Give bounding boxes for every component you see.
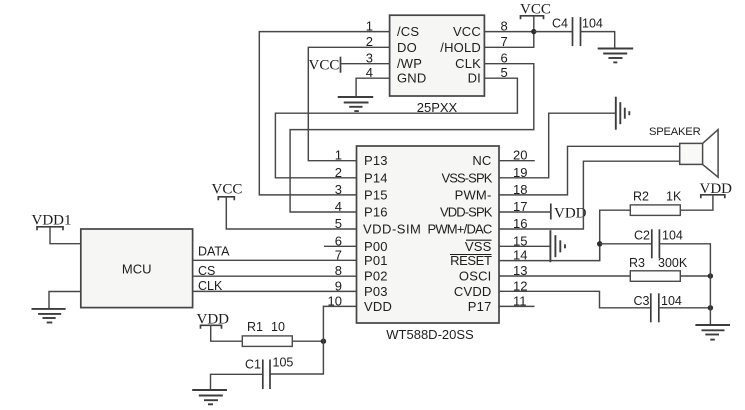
node R2-C2-RESET junction — [597, 241, 602, 246]
svg-text:RESET: RESET — [450, 253, 492, 268]
wire C2 node to C2 — [600, 243, 652, 245]
wire U1 GND pin to ground — [356, 78, 390, 96]
node C3-rail junction — [708, 305, 713, 310]
svg-text:C1: C1 — [245, 358, 261, 372]
wire R2 left down through C2 node to RESET wire — [600, 210, 631, 260]
wire U1 DI to U2 P14 — [275, 78, 517, 178]
wire U2 VDD-SPK pin 17 to VDD tick — [499, 211, 551, 213]
wire DATA MCU to U2 P01 — [193, 245, 357, 261]
speaker LS1 — [649, 126, 718, 177]
resistor R2 1K — [630, 190, 682, 216]
svg-text:P03: P03 — [364, 284, 388, 299]
svg-text:CVDD: CVDD — [454, 284, 492, 299]
wire junction up to U2 VDD pin 10 — [323, 306, 356, 341]
wire C4 to ground — [581, 32, 615, 49]
svg-text:VSS: VSS — [465, 239, 492, 254]
svg-text:/CS: /CS — [397, 24, 419, 39]
svg-text:P13: P13 — [364, 153, 388, 168]
svg-text:P02: P02 — [364, 269, 388, 284]
svg-text:NC: NC — [472, 153, 491, 168]
wire U1 CLK to U2 P16 — [290, 64, 534, 212]
MCU U3 body — [81, 229, 193, 308]
node R3-rail junction — [708, 273, 713, 278]
svg-text:C4: C4 — [552, 17, 568, 31]
svg-text:OSCI: OSCI — [459, 269, 492, 284]
capacitor C4 104 — [552, 17, 603, 47]
wire U1 VCC pin 8 to junction — [484, 31, 533, 33]
svg-text:WT588D-20SS: WT588D-20SS — [386, 327, 474, 342]
wire VDD down to R1 — [211, 325, 243, 341]
svg-text:GND: GND — [397, 71, 427, 86]
U2 pin 20 NC stub — [499, 160, 535, 162]
capacitor C3 104 — [634, 293, 682, 322]
ground at MCU — [32, 309, 66, 323]
svg-text:R1: R1 — [247, 320, 263, 334]
power VDD1 at MCU — [32, 213, 72, 231]
resistor R3 300K — [629, 256, 688, 281]
svg-text:P16: P16 — [364, 205, 388, 220]
svg-text:VCC: VCC — [453, 24, 481, 39]
svg-text:CLK: CLK — [455, 56, 481, 71]
wire VDD1 to MCU — [50, 227, 81, 244]
svg-text:SPEAKER: SPEAKER — [649, 126, 701, 138]
svg-text:DATA: DATA — [198, 245, 230, 259]
power VCC above C4 junction — [520, 2, 551, 32]
svg-text:104: 104 — [582, 17, 603, 31]
svg-text:/WP: /WP — [397, 56, 422, 71]
svg-text:VDD: VDD — [364, 299, 392, 314]
wire VCC tick to U1 /WP — [341, 63, 390, 65]
svg-text:R2: R2 — [633, 190, 649, 204]
svg-text:VCC: VCC — [212, 182, 243, 198]
svg-text:1K: 1K — [666, 190, 682, 204]
svg-text:DI: DI — [468, 71, 481, 86]
resistor R1 10 — [242, 320, 292, 346]
U2 pin 14 name RESET with overline — [450, 253, 492, 268]
wire junction to C4 — [534, 31, 573, 33]
wire C1 left to ground — [211, 374, 263, 390]
capacitor C2 104 — [634, 229, 683, 259]
U2 pin 6 stub — [324, 245, 357, 247]
wire U1 /CS to U2 P15 — [259, 32, 389, 195]
ground at U1 GND — [338, 97, 374, 111]
svg-text:P14: P14 — [364, 170, 388, 185]
node junction VCC-C4 — [531, 29, 536, 34]
svg-text:104: 104 — [661, 294, 682, 308]
svg-text:P00: P00 — [364, 239, 388, 254]
svg-text:VDD: VDD — [554, 206, 587, 222]
svg-text:/HOLD: /HOLD — [440, 40, 481, 55]
svg-text:VSS-SPK: VSS-SPK — [441, 170, 492, 185]
ground bottom right — [695, 325, 730, 340]
wire CS MCU to U2 P02 — [193, 264, 357, 278]
wire U1 DO to U2 P13 — [308, 47, 389, 160]
IC U1 25PXX body — [390, 15, 485, 115]
node R1-C1-VDD junction — [321, 339, 326, 344]
svg-text:105: 105 — [273, 356, 294, 370]
svg-text:C2: C2 — [634, 229, 650, 243]
svg-text:P01: P01 — [364, 253, 388, 268]
power VDD at R2 right — [700, 181, 733, 198]
wire U2 PWM- to speaker top — [499, 146, 680, 195]
wire U2 VSS pin 15 to sideways ground — [499, 245, 550, 247]
svg-text:VDD-SIM: VDD-SIM — [363, 222, 421, 237]
svg-text:VCC: VCC — [309, 58, 340, 74]
wire MCU to ground — [49, 292, 81, 309]
wire C3 right to ground rail — [659, 307, 711, 309]
wire U2 PWM+/DAC to speaker bottom — [499, 161, 680, 229]
wire U1 /HOLD pin 7 up to junction — [484, 32, 533, 48]
svg-text:VDD-SPK: VDD-SPK — [440, 205, 493, 220]
U2 pin 11 P17 stub — [499, 305, 535, 307]
svg-text:C3: C3 — [634, 294, 650, 308]
wire VCC to U2 VDD-SIM pin 5 — [226, 197, 356, 229]
wire R3 right to ground rail — [680, 275, 710, 277]
svg-text:P17: P17 — [468, 299, 492, 314]
svg-text:R3: R3 — [629, 256, 645, 270]
ground at C1 — [192, 390, 227, 404]
svg-text:PWM+/DAC: PWM+/DAC — [427, 222, 491, 237]
wire junction down to C1 — [270, 341, 323, 374]
svg-text:300K: 300K — [658, 256, 688, 270]
svg-text:104: 104 — [662, 229, 683, 243]
svg-text:DO: DO — [397, 40, 417, 55]
wire R1 right to junction — [292, 340, 323, 342]
U2 pin 15 name VSS with overline — [465, 239, 492, 254]
wire U2 VSS-SPK to sideways ground — [499, 113, 615, 178]
wire U2 OSCI pin 13 to R3 — [499, 275, 630, 277]
power VCC at U2 VDD-SIM — [212, 182, 243, 201]
wire CLK MCU to U2 P03 — [193, 279, 357, 293]
svg-text:PWM-: PWM- — [455, 187, 492, 202]
power VCC tick at U1 /WP — [309, 57, 341, 74]
sideways ground at VSS — [550, 230, 565, 262]
ground at C4 — [598, 49, 634, 63]
wire R2 right to VDD — [680, 195, 713, 210]
power VDD tick at U2 VDD-SPK — [551, 204, 587, 222]
wire U2 CVDD pin 12 to C3 — [499, 291, 651, 308]
sideways ground at VSS-SPK — [616, 97, 630, 130]
power VDD at R1 — [197, 312, 230, 329]
svg-text:10: 10 — [271, 320, 285, 334]
svg-text:MCU: MCU — [122, 262, 152, 277]
IC U2 WT588D-20SS body — [357, 146, 500, 342]
svg-text:P15: P15 — [364, 187, 388, 202]
wire C2 right to ground rail top — [659, 244, 710, 325]
wire U2 RESET pin 14 up to R2-C2 node — [499, 244, 600, 261]
capacitor C1 105 — [245, 356, 293, 390]
